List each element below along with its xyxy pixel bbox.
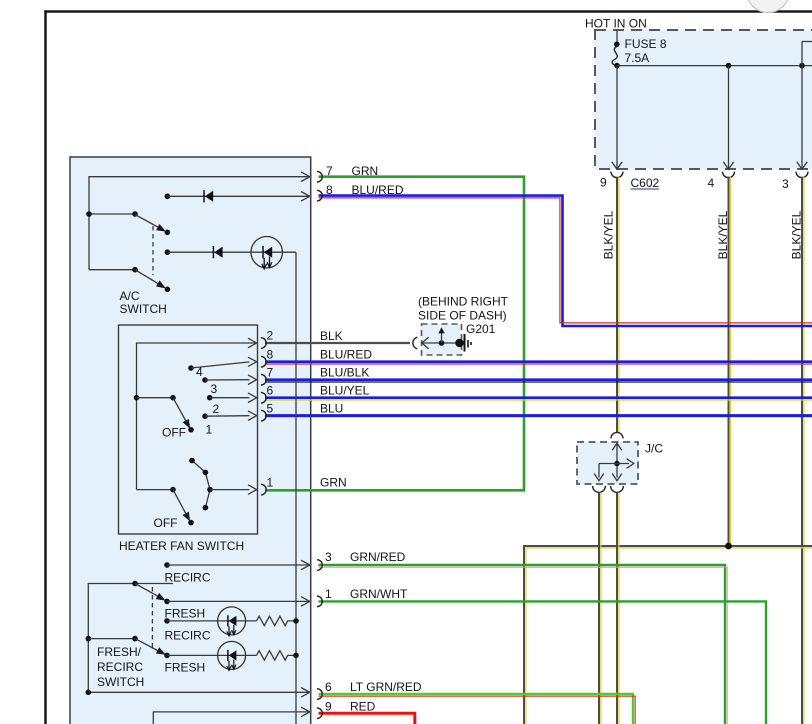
wire BLU/YEL from heater pin6 [265,398,812,400]
wire labels heater pins [320,329,372,490]
arrow into C602 pin 4 [723,162,733,170]
connector label C602 [631,176,660,190]
svg-text:FRESH: FRESH [165,606,206,620]
wire LED return vertical [295,252,297,724]
gang dashed link fresh/recirc [151,587,153,650]
svg-text:G201: G201 [466,322,496,336]
wire BLK/YEL from C602-9 to J/C [602,177,619,433]
fuse F8 stub wire [616,30,618,44]
A/C switch LED branch with diode and LED [165,237,296,270]
svg-text:1: 1 [325,587,332,601]
connector C602 socket arc pin 9 [611,172,623,178]
resistor R (recirc) [257,616,297,625]
svg-text:4: 4 [708,176,715,190]
resistor R (fresh) [257,651,297,660]
heater fan switch lower contact arc [189,458,257,511]
wire BLK from heater pin2 to G201 [265,342,410,344]
svg-text:RECIRC: RECIRC [165,571,211,585]
A/C switch contact to pin 8 with diode D1 [165,190,310,202]
svg-text:GRN/WHT: GRN/WHT [350,587,408,601]
svg-text:3: 3 [325,550,332,564]
connector C602 socket arc pin 4 [723,172,735,178]
wire BLU/RED from heater pin8 [265,362,812,364]
wire GRN/RED from fresh/recirc pin3 [319,565,728,724]
svg-text:BLK/YEL: BLK/YEL [790,210,804,259]
svg-text:2: 2 [213,402,220,416]
svg-text:FRESH: FRESH [165,661,206,675]
junction dot [799,63,805,69]
wire BLU/BLK from heater pin7 [265,380,812,382]
wire RED from fresh/recirc pin9 [319,713,415,724]
svg-text:7.5A: 7.5A [625,51,650,65]
svg-text:OFF: OFF [154,516,178,530]
recirc LED branch: LED + resistor [164,607,299,643]
wire BLU from heater pin5 [265,414,812,417]
junction dot [726,63,732,69]
connector C602 socket arc pin 3 [796,172,808,178]
svg-text:BLU/YEL: BLU/YEL [320,384,370,398]
fresh/recirc pin6 arrow + rail dot [86,688,310,698]
wire LT GRN/RED from fresh/recirc pin6 [319,694,636,724]
pin numbers A/C connector [326,164,333,197]
pin numbers heater connector [267,329,274,490]
svg-text:SWITCH: SWITCH [120,302,167,316]
svg-text:RECIRC: RECIRC [97,660,143,674]
pin numbers + labels fresh/recirc connector [325,550,422,714]
heater fan switch contacts 4,3,2,1,OFF [162,362,250,440]
svg-text:6: 6 [267,384,274,398]
svg-text:(BEHIND RIGHT: (BEHIND RIGHT [418,295,509,309]
fresh LED branch: LED + resistor [164,641,299,674]
ground G201 [413,295,509,356]
wire branch 9 [616,66,618,169]
svg-text:7: 7 [267,366,274,380]
wire BLK/YEL from C602-3 [790,177,804,724]
fresh/recirc pole upper [132,581,164,600]
fresh/recirc rail [88,584,309,693]
svg-text:HEATER FAN SWITCH: HEATER FAN SWITCH [119,539,244,553]
svg-text:HOT IN ON: HOT IN ON [585,17,647,31]
junction dot BLK/YEL net [725,543,732,550]
svg-text:BLU/RED: BLU/RED [352,183,404,197]
connector arcs heater pins [261,338,266,495]
arrow into C602 pin 3 [797,162,807,170]
svg-text:7: 7 [326,164,333,178]
svg-text:4: 4 [196,365,203,379]
arrows heater pins 8,7,6,5 [248,357,257,420]
svg-text:FRESH/: FRESH/ [97,645,142,659]
heater fan switch pole lower [137,487,194,530]
heater fan switch pole upper [134,395,190,428]
svg-text:OFF: OFF [162,426,186,440]
svg-text:LT GRN/RED: LT GRN/RED [350,680,422,694]
wire BLK/YEL horizontal with corner at x=524 [524,546,812,724]
svg-text:BLU: BLU [320,401,343,415]
arrow into C602 pin 9 [612,162,622,170]
svg-text:GRN: GRN [320,475,347,489]
svg-text:6: 6 [325,680,332,694]
svg-text:8: 8 [267,348,274,362]
svg-text:GRN/RED: GRN/RED [350,550,406,564]
svg-text:1: 1 [206,423,213,437]
svg-text:GRN: GRN [352,164,379,178]
decorative gray blob top right [747,0,790,13]
svg-text:BLK: BLK [320,329,343,343]
A/C + heater fan + fresh/recirc switch assembly box [70,157,311,724]
svg-text:5: 5 [267,402,274,416]
fuse F8 [612,37,667,68]
label FRESH/RECIRC SWITCH [97,645,144,689]
svg-text:C602: C602 [631,176,660,190]
connector arcs A/C + fresh pins at main box edge [317,171,322,718]
svg-text:8: 8 [326,183,333,197]
wire GRN: A/C pin7 to heater fan pin1 [265,177,524,491]
LED indicator lamp [251,237,282,268]
svg-text:3: 3 [782,177,789,191]
wire BLK/YEL from C602-4 [716,177,730,545]
heater fan switch box [119,325,258,534]
svg-text:BLU/RED: BLU/RED [320,348,372,362]
junction connector J/C [577,432,663,492]
svg-text:2: 2 [267,329,274,343]
wire branch 3 [802,42,812,169]
svg-text:3: 3 [211,382,218,396]
fresh/recirc switch pin3 line [164,560,310,584]
svg-text:BLK/YEL: BLK/YEL [602,210,616,259]
fuse block dashed box (HOT IN ON) [585,17,812,170]
svg-text:A/C: A/C [120,289,140,303]
svg-text:BLU/BLK: BLU/BLK [320,366,369,380]
svg-text:1: 1 [267,476,274,490]
fresh/recirc pole lower [86,636,165,654]
A/C switch: pin7 line + left rail [89,172,310,270]
svg-text:SWITCH: SWITCH [97,675,144,689]
svg-text:SIDE OF DASH): SIDE OF DASH) [418,309,507,323]
svg-text:RED: RED [350,700,376,714]
svg-text:BLK/YEL: BLK/YEL [716,210,730,259]
A/C switch pole upper [86,211,170,235]
wire GRN/WHT from fresh/recirc pin1 [319,601,767,724]
wire BLU/RED from A/C pin8 [319,196,812,326]
heater fan switch rail from pin2 [137,338,257,489]
wire fuse output bus [617,65,812,67]
label A/C SWITCH [120,289,167,316]
fresh/recirc pin1 line [164,597,310,621]
svg-text:9: 9 [600,176,607,190]
svg-text:J/C: J/C [645,442,663,456]
wire BLK/YEL below J/C right [617,493,619,724]
wire labels A/C pins [352,164,404,197]
wire BLK/YEL below J/C left [599,493,601,724]
A/C switch gang dashed link [152,226,154,275]
svg-text:FUSE 8: FUSE 8 [625,37,667,51]
fresh/recirc pin9 wire from below [153,707,309,724]
svg-text:RECIRC: RECIRC [165,629,211,643]
A/C switch pole lower [89,267,170,292]
wire branch 4 [728,66,730,169]
svg-text:9: 9 [325,700,332,714]
